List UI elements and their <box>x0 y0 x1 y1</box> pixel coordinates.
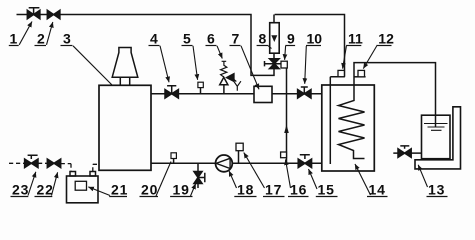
leader 16 <box>286 160 291 189</box>
leader 20 <box>156 162 171 197</box>
svg-text:9: 9 <box>287 31 295 47</box>
wire gas dashed line <box>9 163 99 171</box>
valve 23 <box>25 155 38 167</box>
label 22 <box>35 182 54 198</box>
safety valve 6 <box>220 61 241 94</box>
leader 9 <box>285 46 286 60</box>
sensor 16 <box>281 152 287 158</box>
label 13 <box>427 182 448 198</box>
svg-text:2: 2 <box>37 31 45 47</box>
wire top supply pipe <box>17 15 275 76</box>
label 9 <box>285 31 295 47</box>
label 1 <box>9 31 19 47</box>
leader 1 <box>19 22 32 45</box>
fill pipe into tank 13 <box>435 115 437 127</box>
label 11 <box>346 31 363 47</box>
leader 2 <box>47 22 53 45</box>
leader 18 <box>229 171 237 188</box>
label 3 <box>61 31 73 47</box>
filter box 7 <box>254 86 272 102</box>
leader 8 <box>268 46 271 49</box>
wire riser from valve 9 to return pipe <box>286 68 288 163</box>
label 12 <box>376 31 394 47</box>
stand of tank 13 <box>415 107 461 169</box>
gas meter 21 <box>67 172 99 203</box>
svg-text:12: 12 <box>378 31 394 47</box>
sensor 12 <box>354 70 366 76</box>
sensor 20 <box>171 153 176 164</box>
boiler 3 chimney <box>112 48 138 78</box>
flow arrow up on riser <box>284 125 289 134</box>
leader 15 <box>309 169 318 189</box>
valve 1 <box>27 8 40 19</box>
label 7 <box>230 31 241 47</box>
valve 22 <box>47 159 60 168</box>
label 4 <box>149 31 160 47</box>
label 6 <box>206 31 217 47</box>
svg-text:17: 17 <box>265 182 282 198</box>
label 15 <box>316 182 338 198</box>
label 14 <box>367 182 388 198</box>
svg-text:15: 15 <box>318 182 335 198</box>
label 8 <box>257 31 269 47</box>
svg-text:10: 10 <box>307 31 323 47</box>
label 18 <box>234 182 256 198</box>
svg-text:8: 8 <box>259 31 267 47</box>
label 16 <box>288 182 309 198</box>
label 10 <box>306 31 322 47</box>
svg-text:7: 7 <box>232 31 240 47</box>
sensor 5 <box>198 82 203 94</box>
drain valve 19 <box>194 163 205 188</box>
leader 23 <box>28 172 36 196</box>
leader 13 <box>418 165 427 187</box>
label 5 <box>182 31 193 47</box>
sensor 17 <box>236 143 243 163</box>
label 17 <box>263 182 285 198</box>
valve 4 <box>165 86 178 98</box>
svg-text:6: 6 <box>207 31 215 47</box>
wire middle boiler flow pipe <box>151 93 322 95</box>
svg-text:14: 14 <box>369 182 386 198</box>
leader 22 <box>52 172 58 195</box>
label 2 <box>35 31 47 47</box>
svg-text:1: 1 <box>10 31 18 47</box>
leader 11 <box>343 46 347 69</box>
leader 19 <box>191 184 196 197</box>
svg-text:3: 3 <box>63 31 71 47</box>
tank 14 body <box>322 85 375 171</box>
svg-text:11: 11 <box>348 31 363 47</box>
svg-text:18: 18 <box>237 182 254 198</box>
actuator 9 <box>281 61 287 68</box>
label 20 <box>140 182 159 198</box>
leader 5 <box>193 46 198 80</box>
leader 17 <box>244 153 265 189</box>
label 23 <box>11 182 30 198</box>
wire hot water to tank 13 <box>354 63 436 128</box>
svg-text:21: 21 <box>111 182 128 198</box>
svg-text:13: 13 <box>428 182 445 198</box>
label 21 <box>109 182 128 198</box>
boiler 3 body <box>99 85 151 170</box>
tank 13 body <box>422 115 451 159</box>
heating coil in tank 14 <box>339 85 365 159</box>
leader 7 <box>241 46 259 90</box>
svg-text:5: 5 <box>183 31 191 47</box>
svg-text:20: 20 <box>141 182 158 198</box>
sensor 11 <box>330 70 344 85</box>
svg-text:4: 4 <box>150 31 158 47</box>
leader 3 <box>73 46 120 93</box>
pump 18 <box>216 155 233 172</box>
boiler 3 chimney neck <box>120 77 129 85</box>
mixing valve of 9 <box>265 59 282 69</box>
rotameter 8 <box>270 15 280 59</box>
water level in tank 13 <box>424 124 448 131</box>
leader 21 <box>88 187 110 196</box>
leader 12 <box>363 46 376 69</box>
svg-text:16: 16 <box>290 182 307 198</box>
dip tube in tank 14 <box>329 85 331 164</box>
leader 4 <box>160 46 169 82</box>
valve 10 <box>298 87 311 98</box>
wire bypass over rotameter <box>275 15 345 77</box>
svg-text:23: 23 <box>12 182 29 198</box>
leader 10 <box>305 46 307 84</box>
feed valve of tank 13 <box>393 146 421 158</box>
leader 6 <box>217 46 222 59</box>
leader 14 <box>355 164 371 195</box>
svg-text:19: 19 <box>173 182 190 198</box>
valve 2 <box>47 10 60 19</box>
wire bottom return pipe <box>151 162 322 164</box>
valve 15 <box>298 155 311 168</box>
label 19 <box>170 182 192 198</box>
